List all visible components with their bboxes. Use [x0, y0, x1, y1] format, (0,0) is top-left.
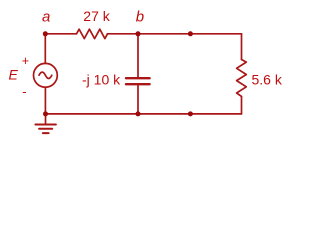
wire bottom [46, 113, 242, 115]
svg-text:-j 10 k: -j 10 k [82, 72, 121, 88]
capacitor bottom lead [137, 85, 139, 114]
svg-text:5.6 k: 5.6 k [252, 72, 283, 88]
bottom wire junction dot [188, 111, 193, 116]
svg-text:b: b [136, 8, 144, 25]
resistor 27 k [77, 29, 108, 38]
ground junction dot [43, 111, 48, 116]
svg-text:27 k: 27 k [83, 8, 110, 24]
svg-text:-: - [22, 84, 26, 99]
wire node a down to source [44, 34, 46, 64]
ground [35, 125, 56, 134]
source E sine wave [39, 72, 52, 78]
svg-text:+: + [22, 54, 29, 68]
wire right branch below resistor [241, 96, 243, 114]
capacitor -j 10 k plates [126, 78, 150, 84]
svg-text:a: a [42, 8, 50, 25]
wire right branch down to resistor [241, 34, 243, 60]
wire ground stem [45, 114, 47, 124]
wire top left (node a to resistor) [45, 33, 77, 35]
node b junction dot [136, 31, 141, 36]
wire top right (resistor to corner, through node b) [108, 33, 242, 35]
wire source to ground junction [44, 87, 46, 114]
resistor 5.6 k [237, 60, 247, 97]
source E circle [34, 63, 58, 87]
node a junction dot [43, 31, 48, 36]
capacitor bottom junction dot [136, 111, 141, 116]
capacitor top lead [137, 34, 139, 77]
svg-text:E: E [9, 67, 19, 83]
top wire junction dot [188, 31, 193, 36]
